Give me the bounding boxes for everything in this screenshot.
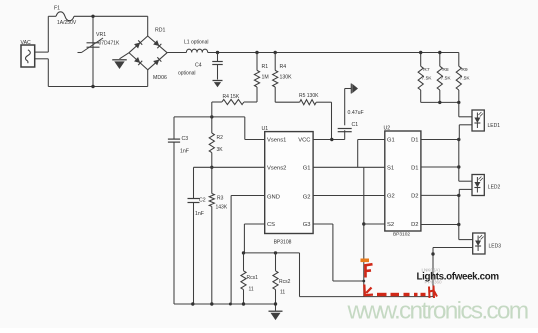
svg-text:MD06: MD06 bbox=[153, 75, 167, 81]
svg-text:VCC: VCC bbox=[298, 138, 310, 144]
svg-text:optional: optional bbox=[178, 71, 196, 77]
svg-text:C2: C2 bbox=[199, 198, 206, 204]
svg-text:D2: D2 bbox=[411, 194, 418, 200]
svg-text:G2: G2 bbox=[303, 195, 311, 201]
svg-text:S1: S1 bbox=[387, 165, 394, 171]
svg-text:0.47uF: 0.47uF bbox=[348, 110, 364, 116]
svg-text:RD1: RD1 bbox=[155, 28, 165, 34]
svg-text:1nF: 1nF bbox=[180, 149, 189, 155]
svg-text:Lights.ofweek.com: Lights.ofweek.com bbox=[417, 272, 500, 283]
svg-text:U2: U2 bbox=[384, 126, 391, 132]
svg-text:S2: S2 bbox=[387, 222, 394, 228]
svg-text:C4: C4 bbox=[195, 63, 202, 69]
svg-text:D1: D1 bbox=[411, 165, 418, 171]
svg-text:7.5K: 7.5K bbox=[441, 76, 452, 82]
svg-text:Rcs1: Rcs1 bbox=[247, 275, 259, 281]
svg-text:R9: R9 bbox=[461, 67, 468, 73]
svg-text:G1: G1 bbox=[303, 165, 311, 171]
svg-text:R1: R1 bbox=[262, 64, 269, 70]
svg-text:130K: 130K bbox=[280, 75, 293, 81]
svg-text:Vsens1: Vsens1 bbox=[267, 138, 286, 144]
svg-text:LED2: LED2 bbox=[488, 185, 501, 191]
svg-text:1A/250V: 1A/250V bbox=[57, 20, 77, 26]
svg-text:www.cntronics.com: www.cntronics.com bbox=[347, 298, 528, 325]
svg-text:R8: R8 bbox=[442, 67, 449, 73]
svg-text:BP3108: BP3108 bbox=[274, 240, 292, 246]
svg-text:R2: R2 bbox=[217, 135, 224, 141]
svg-text:D1: D1 bbox=[411, 138, 418, 144]
svg-text:1nF: 1nF bbox=[195, 211, 204, 217]
svg-text:07D471K: 07D471K bbox=[99, 41, 121, 47]
svg-text:143K: 143K bbox=[216, 205, 228, 211]
svg-text:3K: 3K bbox=[217, 147, 224, 153]
svg-text:L1 optional: L1 optional bbox=[184, 40, 208, 46]
svg-text:7.5K: 7.5K bbox=[422, 76, 433, 82]
svg-text:G3: G3 bbox=[303, 222, 311, 228]
svg-text:C1: C1 bbox=[352, 122, 359, 128]
svg-text:GND: GND bbox=[267, 195, 280, 201]
svg-text:1M: 1M bbox=[262, 75, 269, 81]
svg-text:LED3: LED3 bbox=[489, 244, 502, 250]
svg-text:Rcs2: Rcs2 bbox=[279, 279, 291, 285]
svg-text:R4 15K: R4 15K bbox=[223, 94, 240, 100]
svg-text:R4: R4 bbox=[280, 64, 287, 70]
svg-text:VR1: VR1 bbox=[96, 32, 106, 38]
svg-text:7.5K: 7.5K bbox=[460, 76, 471, 82]
svg-text:BP3102: BP3102 bbox=[393, 232, 410, 238]
svg-text:11: 11 bbox=[280, 290, 285, 296]
svg-text:LED1: LED1 bbox=[488, 123, 501, 129]
svg-text:C3: C3 bbox=[182, 136, 189, 142]
svg-text:D2: D2 bbox=[411, 222, 418, 228]
svg-text:VAC: VAC bbox=[21, 40, 32, 46]
svg-text:F1: F1 bbox=[54, 6, 60, 12]
svg-text:Vsens2: Vsens2 bbox=[267, 165, 286, 171]
svg-text:G2: G2 bbox=[387, 194, 395, 200]
svg-text:CS: CS bbox=[267, 222, 275, 228]
svg-text:11: 11 bbox=[249, 287, 254, 293]
svg-text:R7: R7 bbox=[423, 67, 430, 73]
svg-text:G1: G1 bbox=[387, 138, 395, 144]
svg-text:R5 130K: R5 130K bbox=[299, 93, 319, 99]
svg-text:U1: U1 bbox=[262, 126, 269, 132]
svg-text:R3: R3 bbox=[217, 196, 224, 202]
